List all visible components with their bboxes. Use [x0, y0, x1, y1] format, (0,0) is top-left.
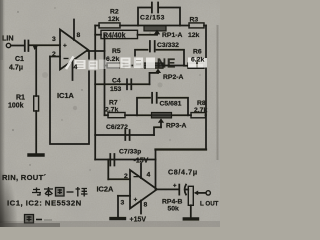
pin 8 stub (IC1A) — [73, 20, 75, 41]
svg-text:2: 2 — [124, 173, 128, 180]
svg-text:12k: 12k — [108, 16, 120, 23]
wire R6 to bus C — [204, 65, 206, 67]
svg-text:3: 3 — [121, 200, 125, 207]
capacitor C7 — [110, 154, 114, 166]
scan edge shadows — [0, 221, 220, 227]
labels layer — [2, 9, 219, 224]
svg-text:L OUT: L OUT — [200, 201, 219, 208]
capacitor C4 — [127, 79, 131, 89]
glyph yu — [32, 188, 41, 196]
glyph yang — [76, 187, 88, 197]
resistor R8 — [191, 113, 206, 118]
wire R1 to ground — [35, 111, 37, 154]
output wire IC2A — [157, 188, 179, 190]
scan speckles — [12, 7, 200, 170]
capacitor C3 — [150, 41, 155, 52]
svg-text:R1: R1 — [16, 95, 25, 102]
watermark slash — [66, 57, 74, 70]
svg-text:C5/681: C5/681 — [160, 101, 182, 108]
wire C4 horizontal — [95, 83, 149, 85]
wire C7 horizontal — [95, 159, 155, 161]
svg-text:R8: R8 — [197, 100, 206, 107]
terminal L OUT — [206, 191, 210, 195]
pin 2 wire (IC1A) — [50, 56, 60, 58]
wire R2 to loop1 — [120, 25, 138, 27]
wire band2 pot level — [135, 65, 184, 67]
pin 2 wire (IC2A) — [108, 178, 130, 180]
svg-text:+: + — [63, 43, 67, 50]
wire R5 to loop2 — [124, 65, 135, 67]
wiper RP2-A — [155, 69, 161, 73]
wire band1 pot level — [138, 25, 180, 27]
svg-text:IC1A: IC1A — [57, 91, 75, 100]
svg-text:3: 3 — [52, 36, 56, 43]
ground (R1) — [29, 153, 43, 156]
wire wiper3 to C6 — [154, 127, 161, 135]
loop wire band1 — [138, 8, 180, 26]
svg-text:RP3-A: RP3-A — [166, 123, 186, 130]
wire C6 horizontal — [95, 134, 154, 136]
resistor R5 — [107, 63, 124, 68]
svg-text:IC1, IC2: NE5532N: IC1, IC2: NE5532N — [7, 199, 82, 208]
svg-text:C8/4.7μ: C8/4.7μ — [168, 168, 198, 177]
svg-text:+: + — [173, 184, 177, 190]
wire band3 pot level — [137, 114, 188, 116]
capacitor C5 — [152, 93, 157, 103]
svg-text:4: 4 — [147, 172, 151, 179]
watermark block 4 — [120, 57, 131, 69]
op-amp IC2A — [130, 170, 157, 209]
svg-text:RP1-A: RP1-A — [162, 32, 182, 39]
svg-text:C4: C4 — [112, 78, 121, 85]
svg-text:50k: 50k — [168, 206, 180, 213]
glyph tu — [56, 188, 65, 197]
pin 4 stub (IC2A) — [140, 164, 142, 179]
wire C8 to RP4 — [186, 189, 188, 191]
wire R4 to wiper — [138, 34, 158, 36]
loop wire band2 — [135, 50, 184, 66]
watermark tail blocks — [188, 58, 207, 68]
svg-text:8: 8 — [144, 202, 148, 209]
minus mark (IC2A) — [134, 176, 139, 177]
input terminal LIN — [6, 43, 10, 47]
output wire IC1A — [88, 50, 105, 52]
svg-text:IC2A: IC2A — [97, 185, 115, 194]
bus node A (virtual-ground bus) — [94, 26, 96, 160]
svg-text:C6/272: C6/272 — [106, 124, 128, 131]
resistor R1 — [34, 96, 39, 111]
wiper RP1-A — [154, 30, 160, 35]
resistor R6 — [188, 63, 204, 68]
svg-text:153: 153 — [110, 86, 122, 93]
ground (RP4-B) — [184, 217, 197, 220]
svg-text:C3/332: C3/332 — [157, 42, 179, 49]
wire bus C drop to IC2A output — [155, 150, 157, 190]
svg-text:4.7μ: 4.7μ — [9, 65, 23, 72]
wire loop3 to R8 — [188, 114, 191, 116]
wiper RP3-A — [158, 118, 164, 127]
wire R8 to bus C — [205, 114, 208, 116]
pin 8 stub (IC2A) — [140, 201, 142, 214]
svg-text:C1: C1 — [15, 56, 24, 63]
ground (IC2A pin3) — [111, 217, 125, 220]
potentiometer RP3-A body — [152, 113, 172, 118]
svg-text:12k: 12k — [188, 32, 200, 39]
feedback wire IC1A — [50, 51, 89, 144]
svg-text:4: 4 — [74, 64, 78, 71]
wire band3 left — [105, 114, 109, 116]
loop wire band3 — [137, 98, 188, 115]
wire wiper2 to C4 — [150, 73, 159, 84]
wire RP4 bottom to ground — [190, 205, 192, 217]
wire pin2 riser (IC2A) — [107, 160, 109, 180]
potentiometer RP1-A body — [144, 26, 166, 31]
svg-text:100k: 100k — [8, 103, 24, 110]
svg-text:2: 2 — [52, 51, 56, 58]
wire band2 left — [105, 65, 108, 67]
resistor R2 — [99, 23, 120, 28]
capacitor C8 — [179, 185, 186, 195]
svg-text:C2/153: C2/153 — [140, 15, 165, 22]
wire loop2 to R6 — [184, 65, 188, 67]
watermark faint middle — [99, 60, 119, 70]
wiper RP4-B — [194, 191, 206, 196]
svg-text:6.2k: 6.2k — [106, 56, 119, 63]
svg-text:RP2-A: RP2-A — [163, 74, 183, 81]
potentiometer RP4-B body — [188, 186, 193, 205]
capacitor C6 — [125, 130, 129, 140]
glyph ben — [44, 187, 53, 197]
svg-text:NE: NE — [157, 57, 176, 71]
svg-text:R5: R5 — [112, 48, 121, 55]
capacitor C2 — [152, 3, 158, 13]
wire band1 left — [95, 25, 99, 27]
bus node C (IC2A output bus) — [205, 26, 207, 150]
svg-text:RP4-B: RP4-B — [162, 199, 182, 206]
wire R7 to loop3 — [125, 114, 137, 116]
watermark band — [66, 57, 207, 71]
pin 3 wire (IC2A) — [118, 195, 130, 197]
svg-text:-15V: -15V — [134, 158, 149, 165]
svg-text:2.7k: 2.7k — [105, 107, 118, 114]
wire loop1 to R3 — [180, 25, 189, 27]
resistor R3 — [189, 23, 204, 28]
capacitor C1 — [25, 41, 29, 52]
svg-text:R7: R7 — [109, 100, 118, 107]
pin 4 stub (IC1A) — [72, 61, 74, 81]
svg-text:R3: R3 — [190, 17, 199, 24]
wire C1 to pin3 — [29, 44, 60, 46]
junction arrow at C1/R1 node — [33, 45, 39, 50]
svg-text:8: 8 — [77, 32, 81, 39]
watermark block 6 — [146, 58, 155, 69]
svg-text:R4/40k: R4/40k — [103, 32, 126, 39]
svg-text:2.7k: 2.7k — [194, 107, 207, 114]
glyph yi — [67, 191, 74, 193]
wire down to R1 — [35, 46, 37, 97]
svg-text:R6: R6 — [193, 49, 202, 56]
wire pin3 to ground — [117, 196, 119, 217]
wire bus C bottom — [156, 148, 207, 150]
watermark block 1 — [74, 60, 86, 70]
resistor R4 — [101, 30, 138, 38]
minus mark (IC1A) — [64, 58, 69, 59]
op-amp IC1A — [60, 30, 88, 70]
paper background — [0, 0, 220, 227]
watermark block 5 — [134, 57, 144, 69]
svg-text:R2: R2 — [110, 9, 119, 16]
wire input to C1 — [11, 45, 24, 47]
resistor R7 — [108, 113, 125, 118]
svg-text:+: + — [134, 197, 138, 204]
svg-text:C7/33p: C7/33p — [119, 149, 141, 156]
watermark block 2 — [88, 60, 98, 70]
wire R3 to bus C — [204, 25, 206, 27]
wire stub bus A to R4 — [95, 34, 101, 36]
potentiometer RP2-A body — [141, 63, 163, 68]
CJK note: same as this figure — [32, 187, 88, 197]
CJK caption: figure one — [25, 215, 53, 224]
bus node B (buffer output bus) — [104, 35, 106, 116]
svg-text:6.2k: 6.2k — [191, 57, 204, 64]
